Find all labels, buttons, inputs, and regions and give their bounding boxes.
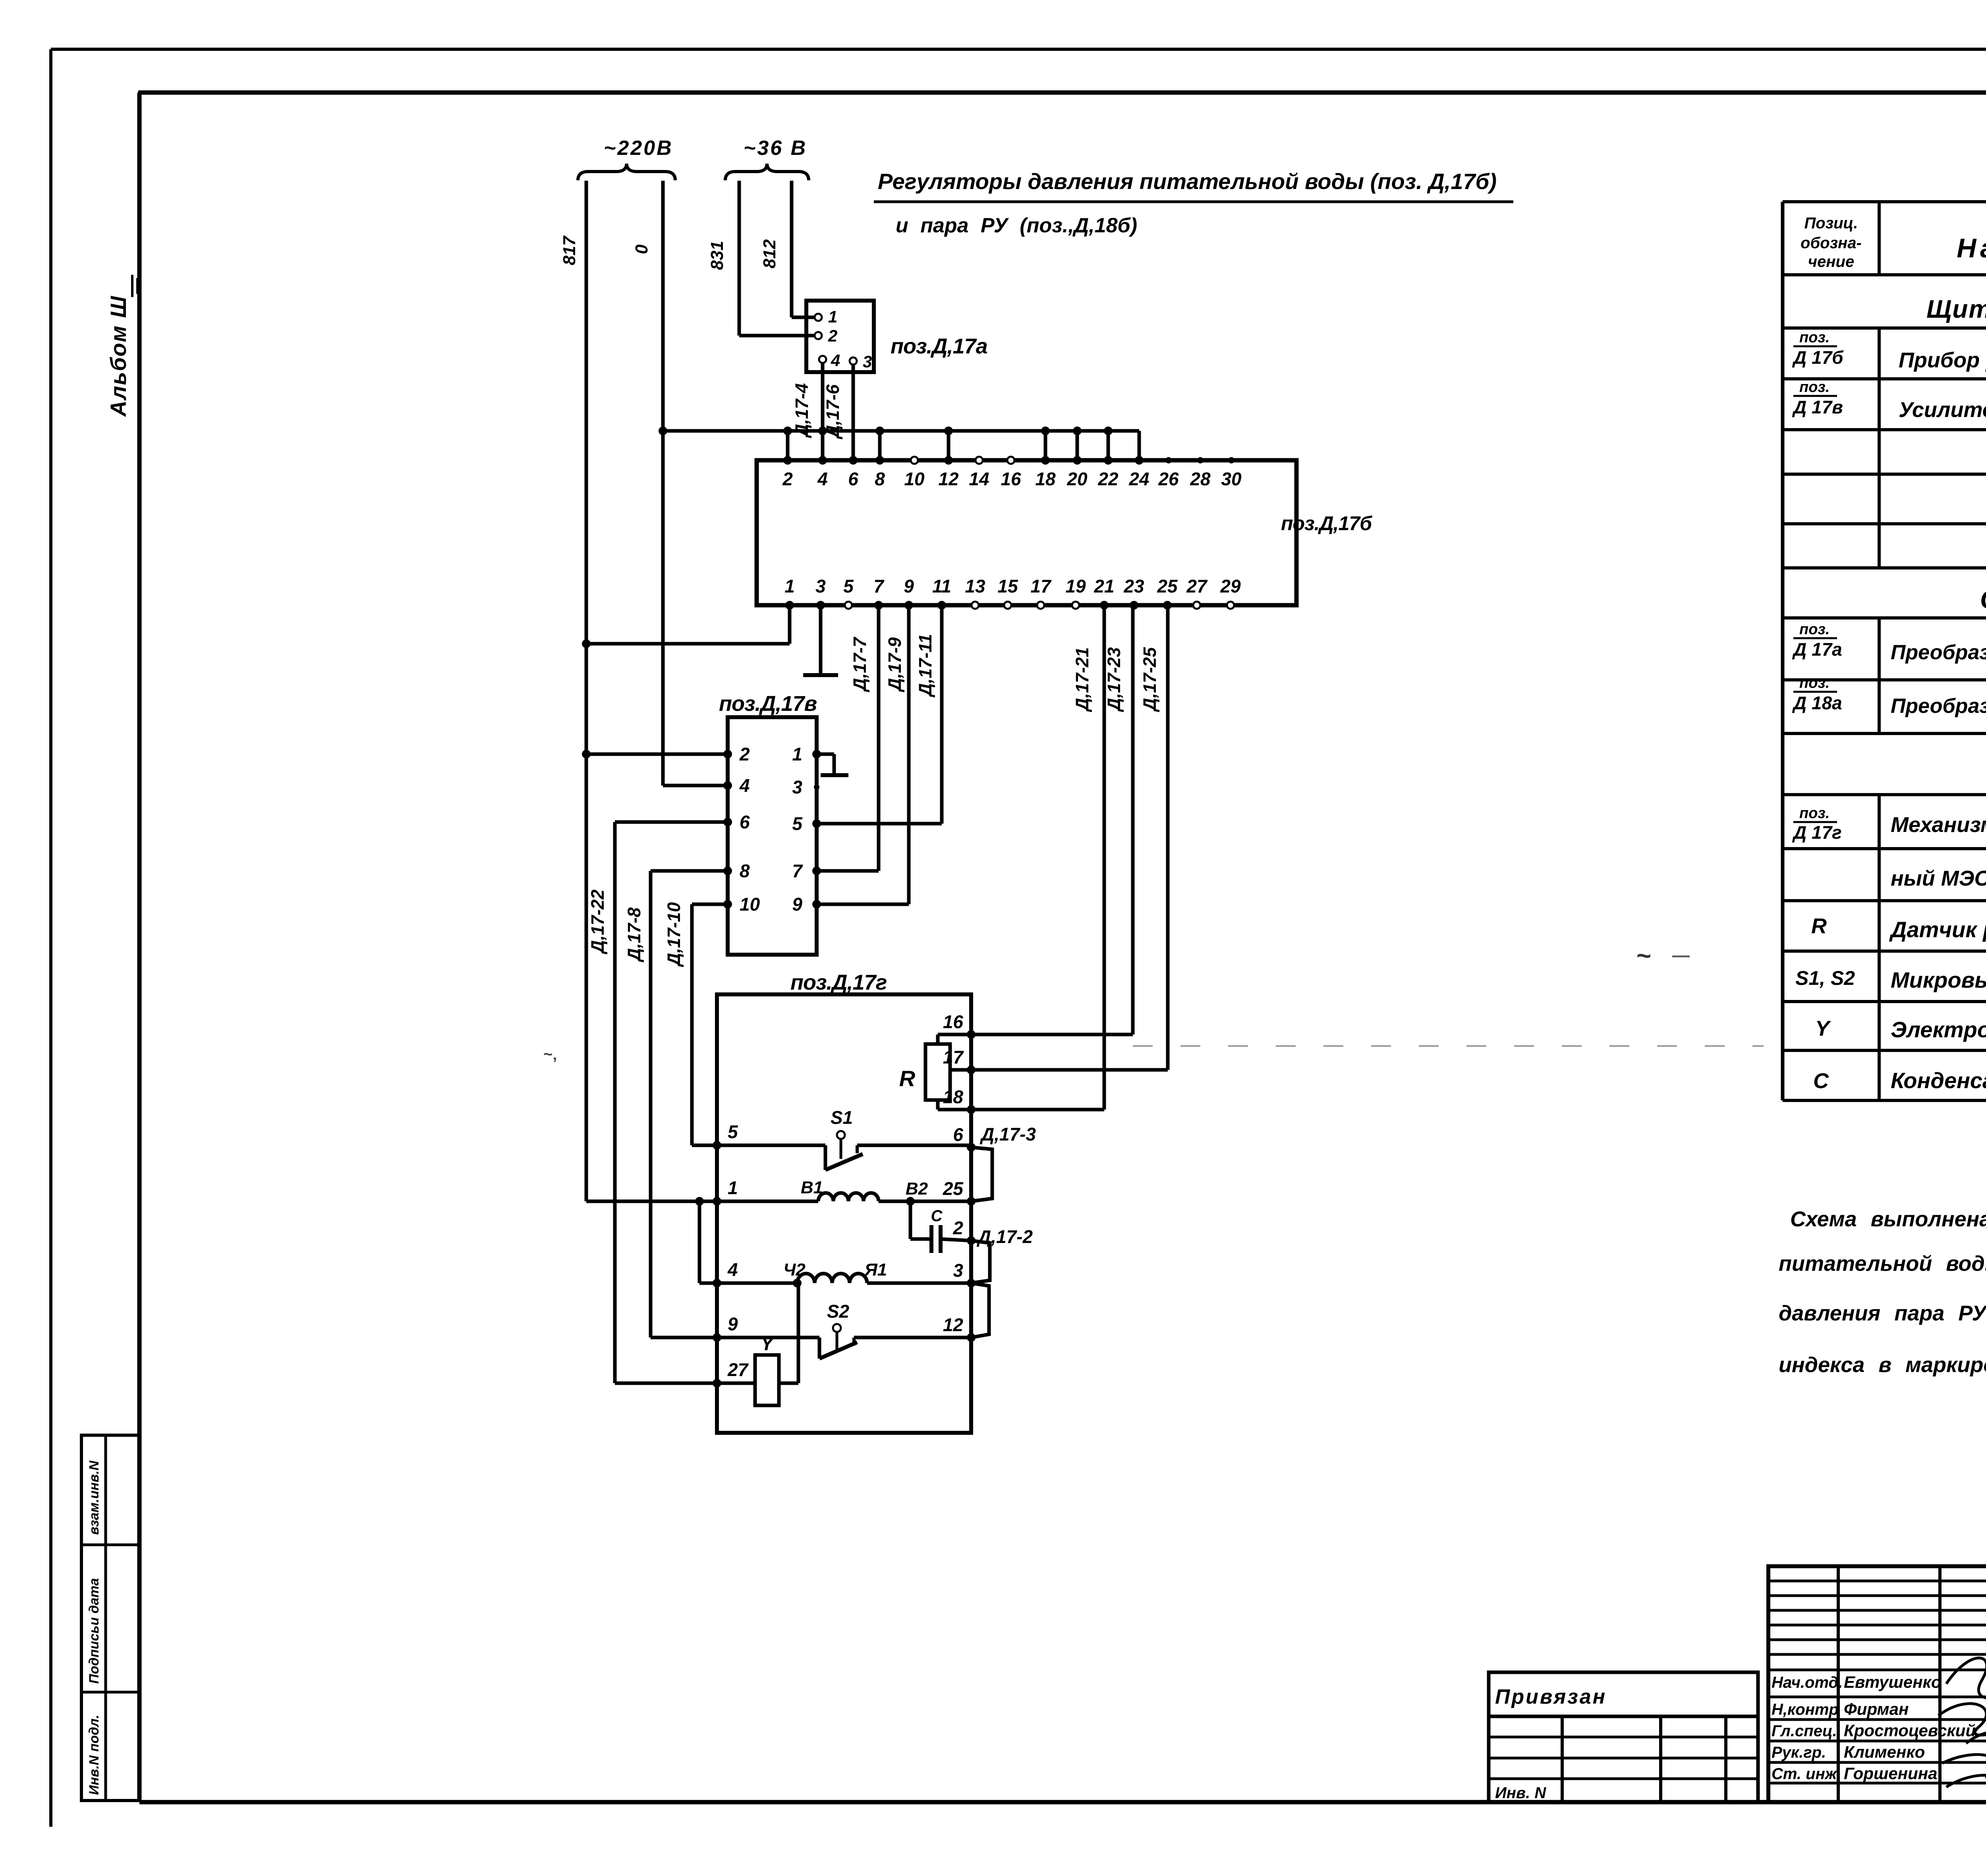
svg-text:Горшенина: Горшенина (1844, 1764, 1937, 1783)
svg-text:S1: S1 (831, 1107, 853, 1128)
svg-text:22: 22 (1097, 469, 1119, 489)
svg-text:5: 5 (792, 813, 803, 834)
svg-text:Y: Y (1815, 1017, 1831, 1040)
svg-text:Подписьи дата: Подписьи дата (87, 1578, 102, 1684)
svg-text:Микровыключатель: Микровыключатель (1891, 967, 1986, 992)
svg-text:Прибор регулирующий РС 29.1.: Прибор регулирующий РС 29.1.12-220В (1899, 348, 1986, 372)
svg-text:~‚: ~‚ (543, 1046, 557, 1063)
svg-text:С: С (1813, 1069, 1829, 1093)
svg-text:Д,17-25: Д,17-25 (1140, 647, 1160, 712)
svg-text:25: 25 (1157, 576, 1178, 596)
svg-text:6: 6 (848, 469, 858, 489)
svg-text:поз.: поз. (1799, 805, 1830, 822)
svg-text:В2: В2 (906, 1179, 928, 1199)
svg-text:Преобразователь давления МП (м: Преобразователь давления МП (мод.225П) (1891, 641, 1986, 664)
svg-text:Д,17-7: Д,17-7 (850, 637, 870, 693)
svg-text:12: 12 (943, 1314, 964, 1335)
svg-text:Конденсатор: Конденсатор (1891, 1068, 1986, 1093)
svg-text:поз.Д,17г: поз.Д,17г (790, 971, 887, 994)
svg-text:24: 24 (1128, 469, 1149, 489)
svg-text:Д,17-22: Д,17-22 (587, 890, 608, 955)
svg-text:Преобразователь давления МП (м: Преобразователь давления МП (мод. 22518) (1891, 695, 1986, 718)
svg-text:12: 12 (938, 469, 959, 489)
svg-text:Клименко: Клименко (1844, 1743, 1925, 1761)
svg-text:чение: чение (1808, 253, 1854, 270)
svg-text:Д,17-8: Д,17-8 (624, 907, 644, 963)
svg-text:поз.: поз. (1799, 379, 1830, 396)
svg-text:4: 4 (817, 469, 828, 489)
svg-text:Д,17-3: Д,17-3 (979, 1124, 1036, 1145)
svg-text:30: 30 (1221, 469, 1242, 489)
svg-text:26: 26 (1158, 469, 1179, 489)
svg-text:28: 28 (1190, 469, 1211, 489)
svg-text:Регуляторы давления питательно: Регуляторы давления питательной воды (по… (878, 169, 1497, 194)
svg-text:7: 7 (873, 576, 885, 596)
svg-text:2: 2 (952, 1218, 963, 1238)
svg-text:2: 2 (828, 326, 837, 345)
svg-text:0: 0 (632, 244, 651, 254)
svg-text:Евтушенко: Евтушенко (1844, 1673, 1942, 1691)
svg-text:поз.: поз. (1799, 621, 1830, 638)
svg-text:~: ~ (1636, 941, 1651, 970)
svg-text:~220В: ~220В (604, 137, 673, 160)
svg-text:Ст. инж: Ст. инж (1772, 1765, 1838, 1783)
svg-text:3: 3 (815, 576, 826, 596)
svg-text:Д,17-11: Д,17-11 (915, 634, 935, 698)
svg-text:29: 29 (1220, 576, 1241, 596)
svg-text:4: 4 (739, 775, 750, 796)
svg-text:и пара РУ (поз.,Д,18б): и пара РУ (поз.,Д,18б) (896, 214, 1137, 237)
svg-text:20: 20 (1066, 469, 1088, 489)
svg-text:поз.Д,17а: поз.Д,17а (891, 334, 987, 358)
svg-text:давления пара РУ (поз.Д 18б): давления пара РУ (поз.Д 18б) с соответст… (1779, 1301, 1986, 1325)
svg-text:Наименование: Наименование (1957, 233, 1986, 263)
svg-text:обозна-: обозна- (1801, 234, 1862, 252)
svg-text:2: 2 (739, 744, 750, 764)
svg-text:812: 812 (760, 239, 779, 268)
svg-text:6: 6 (953, 1124, 963, 1145)
svg-text:4: 4 (831, 351, 840, 370)
svg-text:ный МЭО - 100/25 - 0,25 Р: ный МЭО - 100/25 - 0,25 Р (1891, 867, 1986, 890)
svg-text:8: 8 (740, 861, 750, 881)
svg-text:11: 11 (932, 576, 951, 596)
svg-text:Щит управления N1: Щит управления N1 (1926, 295, 1986, 323)
svg-text:~36 В: ~36 В (744, 137, 807, 160)
svg-text:Механизм электрический однооб: Механизм электрический однооборот (1891, 813, 1986, 837)
svg-text:Д,17-21: Д,17-21 (1072, 647, 1092, 712)
svg-text:25: 25 (943, 1178, 964, 1199)
svg-text:Альбом Ш: Альбом Ш (106, 295, 131, 417)
svg-text:9: 9 (904, 576, 914, 596)
svg-text:7: 7 (792, 861, 803, 881)
svg-text:6: 6 (740, 812, 750, 832)
svg-text:Привязан: Привязан (1495, 1685, 1607, 1708)
svg-text:3: 3 (792, 777, 802, 797)
svg-text:Усилитель трехпозиционный У2: Усилитель трехпозиционный У29.3 (1899, 398, 1986, 422)
svg-text:Y: Y (761, 1334, 775, 1355)
svg-text:Д 17а: Д 17а (1792, 639, 1842, 660)
svg-text:Датчик реостатный: Датчик реостатный (1889, 917, 1986, 942)
svg-text:17: 17 (943, 1047, 964, 1067)
svg-text:Электромагнит: Электромагнит (1891, 1017, 1986, 1042)
svg-text:1: 1 (784, 576, 795, 596)
svg-text:1: 1 (792, 744, 802, 764)
svg-text:—: — (1672, 946, 1690, 965)
svg-text:Позиц.: Позиц. (1804, 214, 1858, 232)
svg-text:27: 27 (727, 1359, 749, 1380)
svg-text:Д 17в: Д 17в (1792, 397, 1843, 417)
svg-text:поз.Д,17б: поз.Д,17б (1281, 512, 1373, 535)
svg-text:13: 13 (965, 576, 985, 596)
svg-text:В1: В1 (801, 1178, 823, 1197)
svg-text:817: 817 (560, 235, 579, 265)
svg-text:R: R (899, 1066, 916, 1091)
svg-text:Д 17г: Д 17г (1792, 822, 1842, 843)
svg-text:2: 2 (782, 469, 793, 489)
svg-text:18: 18 (1035, 469, 1056, 489)
svg-text:Гл.спец.: Гл.спец. (1772, 1722, 1837, 1740)
svg-text:Статив местный: Статив местный (1980, 585, 1986, 614)
svg-text:Д,17-9: Д,17-9 (885, 637, 905, 693)
svg-text:С: С (931, 1207, 943, 1225)
svg-text:Инв. N: Инв. N (1495, 1784, 1546, 1802)
svg-text:Н,контр: Н,контр (1772, 1701, 1839, 1718)
svg-text:21: 21 (1093, 576, 1114, 596)
svg-text:Фирман: Фирман (1844, 1700, 1909, 1718)
svg-text:18: 18 (943, 1087, 964, 1107)
svg-text:Д,17-23: Д,17-23 (1104, 647, 1124, 712)
svg-text:S2: S2 (827, 1301, 850, 1322)
svg-text:10: 10 (904, 469, 925, 489)
svg-text:4: 4 (727, 1259, 738, 1280)
svg-text:10: 10 (740, 894, 760, 915)
svg-text:16: 16 (943, 1011, 964, 1032)
svg-text:9: 9 (792, 894, 802, 915)
svg-text:1: 1 (828, 307, 837, 326)
svg-text:взам.инв.N: взам.инв.N (87, 1460, 102, 1535)
svg-text:3: 3 (953, 1260, 963, 1281)
svg-text:19: 19 (1065, 576, 1086, 596)
svg-text:3: 3 (863, 352, 872, 371)
svg-text:Кростоцевский: Кростоцевский (1844, 1721, 1976, 1740)
svg-text:16: 16 (1001, 469, 1021, 489)
svg-text:индекса в маркировке цепей и: индекса в маркировке цепей и позициях пр… (1779, 1353, 1986, 1377)
svg-text:Схема выполнена для регу: Схема выполнена для регулятора давления (1790, 1207, 1986, 1231)
svg-text:5: 5 (728, 1121, 738, 1142)
svg-text:15: 15 (997, 576, 1018, 596)
svg-text:5: 5 (843, 576, 854, 596)
svg-text:Д,17-10: Д,17-10 (664, 902, 684, 967)
svg-text:Я1: Я1 (864, 1260, 887, 1280)
svg-text:Д 17б: Д 17б (1792, 347, 1844, 368)
svg-text:Рук.гр.: Рук.гр. (1772, 1744, 1826, 1761)
svg-text:14: 14 (969, 469, 989, 489)
svg-text:Нач.отд.: Нач.отд. (1772, 1674, 1843, 1691)
svg-text:17: 17 (1030, 576, 1052, 596)
svg-text:Ч2: Ч2 (783, 1260, 806, 1280)
svg-text:1: 1 (728, 1177, 738, 1198)
svg-text:R: R (1811, 914, 1827, 938)
svg-text:27: 27 (1186, 576, 1208, 596)
svg-text:9: 9 (728, 1314, 738, 1334)
svg-text:поз.: поз. (1799, 675, 1830, 691)
svg-text:Инв.N подл.: Инв.N подл. (87, 1715, 102, 1795)
svg-text:831: 831 (707, 241, 727, 270)
svg-text:Д 18а: Д 18а (1792, 693, 1842, 713)
svg-text:поз.Д,17в: поз.Д,17в (719, 692, 817, 716)
svg-text:питательной воды (поз.Д,17б) и: питательной воды (поз.Д,17б) и применима… (1779, 1252, 1986, 1276)
svg-text:8: 8 (875, 469, 885, 489)
svg-text:поз.: поз. (1799, 329, 1830, 346)
svg-text:S1, S2: S1, S2 (1795, 967, 1855, 989)
svg-text:23: 23 (1123, 576, 1144, 596)
